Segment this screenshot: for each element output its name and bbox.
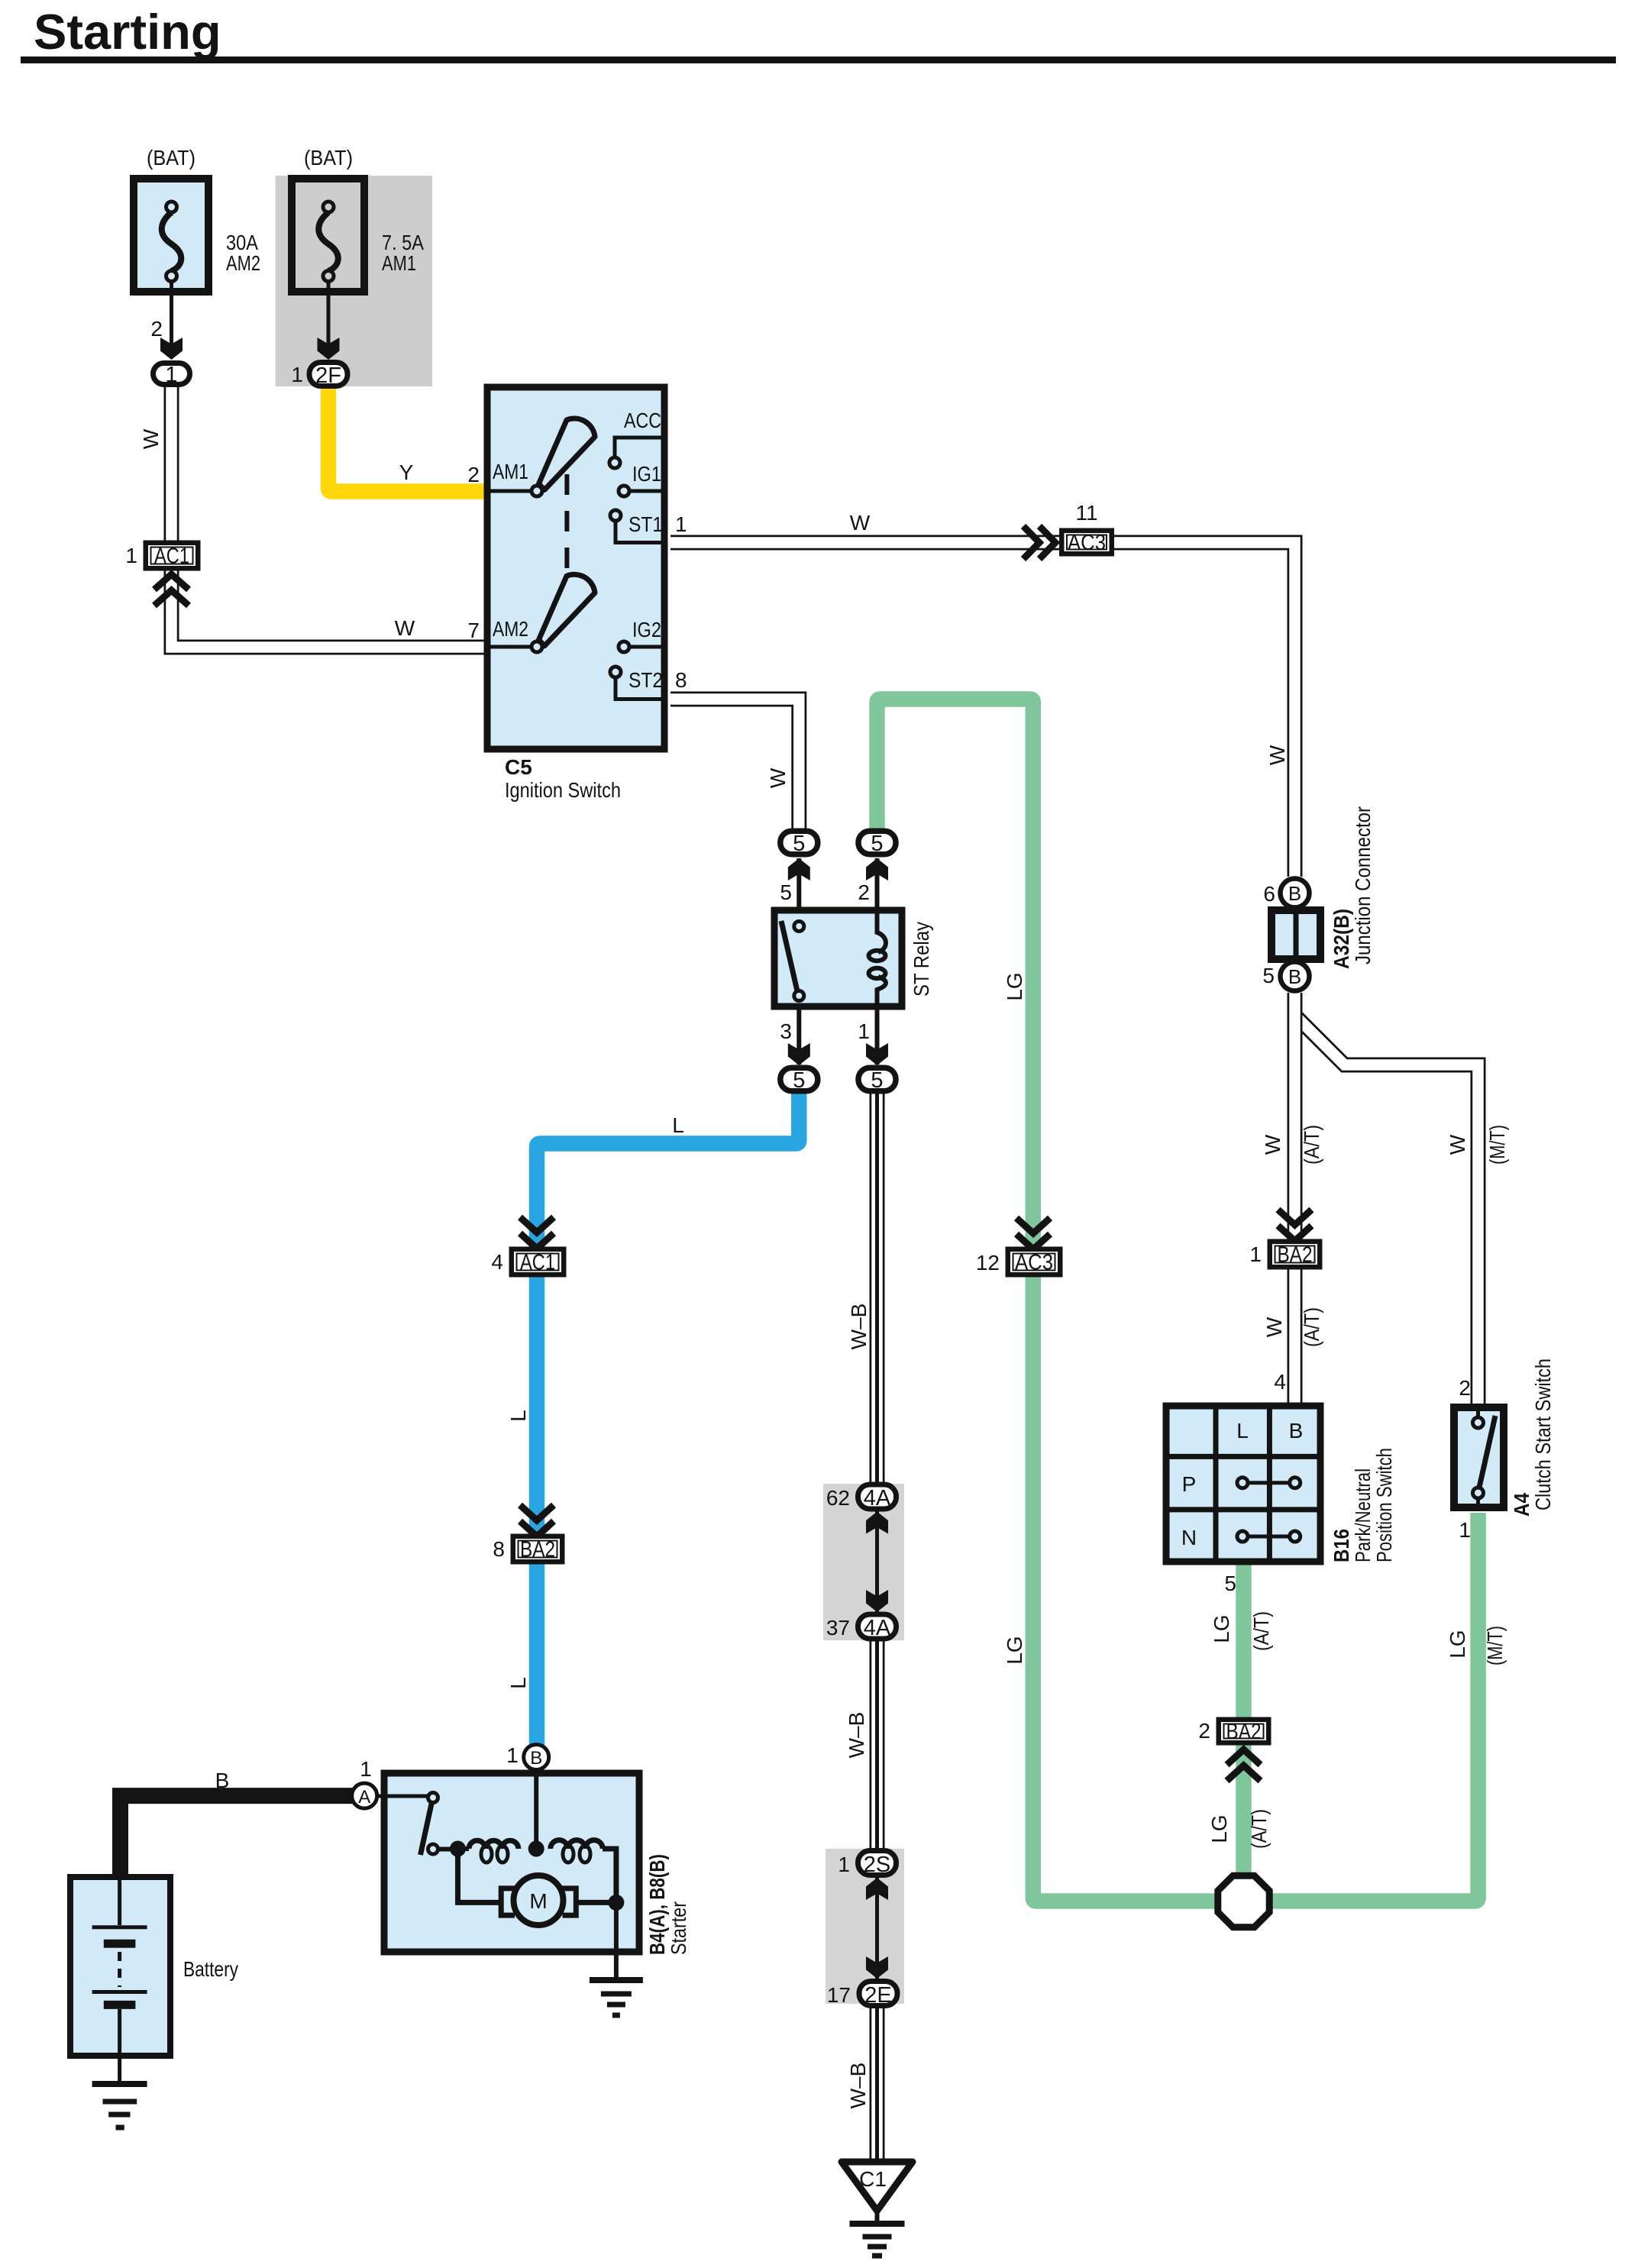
relay pin 1 stub xyxy=(875,1006,880,1065)
svg-text:B: B xyxy=(1288,965,1301,988)
svg-text:BA2: BA2 xyxy=(1226,1720,1262,1744)
wire LG (A/T) green from B16 pin 5 through BA2-2 to octagon splice xyxy=(1236,1565,1252,1901)
svg-text:4A: 4A xyxy=(864,1616,891,1640)
svg-text:BA2: BA2 xyxy=(520,1538,555,1562)
svg-text:6: 6 xyxy=(1263,882,1275,906)
svg-text:L: L xyxy=(672,1113,684,1137)
svg-text:AC3: AC3 xyxy=(1015,1251,1053,1275)
svg-text:IG2: IG2 xyxy=(632,618,661,641)
svg-text:Battery: Battery xyxy=(183,1957,238,1981)
svg-text:IG1: IG1 xyxy=(632,462,661,486)
starter solenoid coils xyxy=(450,1841,466,1857)
wire label LG (M/T) on clutch green wire xyxy=(1446,1626,1507,1665)
svg-text:2: 2 xyxy=(858,880,870,904)
svg-text:5: 5 xyxy=(871,1068,883,1093)
svg-text:P: P xyxy=(1182,1472,1197,1496)
svg-text:W: W xyxy=(1262,1317,1286,1337)
wire label W (A/T) below BA2-1 xyxy=(1262,1307,1323,1347)
svg-text:(A/T): (A/T) xyxy=(1249,1611,1273,1651)
wire W-B black stripe xyxy=(875,1092,879,2160)
svg-text:W–B: W–B xyxy=(847,1304,871,1350)
svg-text:4A: 4A xyxy=(864,1486,891,1510)
starter pin A circle xyxy=(352,1757,377,1808)
chevrons below AC1-1 pointing up xyxy=(154,574,189,606)
svg-text:W: W xyxy=(766,767,790,788)
gray background behind connectors 2S 2E xyxy=(826,1849,904,2004)
AM1 switch wedge xyxy=(539,418,596,489)
svg-text:(A/T): (A/T) xyxy=(1300,1307,1323,1347)
connector oval 2E-17 xyxy=(827,1982,897,2008)
relay oval 5 (bottom right) xyxy=(858,1068,896,1093)
svg-text:W: W xyxy=(139,428,163,449)
wire label W (A/T) above BA2-1 xyxy=(1261,1125,1323,1165)
chevrons above BA2-1 pointing down xyxy=(1278,1210,1312,1241)
wire L blue from ST relay pin 3 oval through AC1-4 and BA2-8 to starter pin B xyxy=(537,1090,799,1749)
wire label LG (A/T) below BA2-2 xyxy=(1207,1809,1271,1849)
svg-text:A4: A4 xyxy=(1510,1493,1533,1517)
svg-text:(A/T): (A/T) xyxy=(1300,1125,1323,1165)
svg-text:3: 3 xyxy=(780,1019,792,1043)
AM2 switch wedge xyxy=(539,574,596,645)
svg-text:(BAT): (BAT) xyxy=(147,146,195,170)
svg-text:2: 2 xyxy=(150,317,163,341)
svg-text:LG: LG xyxy=(1446,1630,1469,1658)
svg-text:N: N xyxy=(1181,1526,1197,1549)
svg-text:5: 5 xyxy=(871,832,883,856)
battery xyxy=(70,1877,238,2084)
park/neutral position switch B16 xyxy=(1166,1370,1396,1595)
svg-text:Y: Y xyxy=(399,460,414,484)
wire Y yellow from fuse AM1 oval 2F to ignition AM1 xyxy=(328,386,484,492)
wire W from ignition ST2 to ST relay pin 5 oval xyxy=(670,699,799,830)
AM1 terminal xyxy=(487,489,531,493)
arrow down into relay oval 1 xyxy=(866,1043,888,1065)
connector AC1-1 xyxy=(125,541,200,571)
svg-text:(M/T): (M/T) xyxy=(1483,1626,1507,1665)
svg-text:ST1: ST1 xyxy=(628,512,663,536)
relay switch contact xyxy=(794,922,804,932)
svg-text:ST2: ST2 xyxy=(628,668,663,692)
fuse 30A AM2 xyxy=(134,146,260,357)
connector oval 2S-1 xyxy=(838,1851,896,1878)
svg-text:5: 5 xyxy=(793,832,805,856)
relay oval 5 (top left) xyxy=(780,831,818,856)
svg-text:1: 1 xyxy=(858,1019,870,1043)
wire W (A/T) from junction connector pin 5 through BA2-1 to B16 pin 4 xyxy=(1288,993,1303,1403)
IG1 terminal xyxy=(630,489,664,493)
ACC terminal xyxy=(615,438,664,457)
arrow down into connector 2E xyxy=(866,1956,888,1979)
svg-text:2: 2 xyxy=(1459,1376,1471,1400)
svg-text:(BAT): (BAT) xyxy=(304,146,353,170)
starter motor xyxy=(458,1849,502,1902)
AM2 terminal xyxy=(487,645,531,649)
relay oval 5 (bottom left) xyxy=(780,1068,818,1093)
svg-text:1: 1 xyxy=(125,544,137,567)
svg-text:C1: C1 xyxy=(859,2167,887,2191)
ST1 terminal xyxy=(610,510,621,521)
N row contact xyxy=(1242,1535,1295,1539)
connector oval 4A-62 xyxy=(826,1485,897,1510)
svg-text:LG: LG xyxy=(1003,972,1026,1000)
svg-text:Park/Neutral: Park/Neutral xyxy=(1351,1468,1375,1562)
svg-text:4: 4 xyxy=(491,1250,503,1274)
svg-text:AC1: AC1 xyxy=(154,544,189,569)
svg-text:Junction Connector: Junction Connector xyxy=(1351,806,1375,964)
svg-text:Position Switch: Position Switch xyxy=(1372,1448,1396,1562)
svg-text:1: 1 xyxy=(360,1757,372,1781)
chevrons above AC1-4 pointing down xyxy=(520,1217,554,1249)
svg-text:62: 62 xyxy=(826,1486,850,1510)
svg-text:5: 5 xyxy=(1224,1572,1236,1595)
octagon splice xyxy=(1218,1875,1269,1927)
svg-text:2F: 2F xyxy=(315,363,341,388)
relay pin 2 stub xyxy=(875,858,880,910)
svg-text:LG: LG xyxy=(1003,1636,1026,1664)
svg-text:LG: LG xyxy=(1210,1614,1233,1643)
connector oval 1 xyxy=(153,363,190,387)
svg-text:5: 5 xyxy=(793,1068,805,1093)
svg-text:1: 1 xyxy=(165,363,177,387)
svg-text:A: A xyxy=(358,1787,370,1808)
svg-text:1: 1 xyxy=(1249,1242,1262,1266)
svg-text:5: 5 xyxy=(780,880,792,904)
svg-text:B: B xyxy=(530,1748,542,1769)
chevrons above BA2-8 pointing down xyxy=(520,1505,554,1536)
svg-text:BA2: BA2 xyxy=(1278,1243,1313,1268)
svg-text:A32(B): A32(B) xyxy=(1330,909,1353,969)
relay oval 5 (top right) xyxy=(858,831,896,856)
svg-text:ST Relay: ST Relay xyxy=(910,922,933,997)
svg-text:1: 1 xyxy=(291,363,303,386)
relay pin 5 stub xyxy=(796,858,801,910)
relay pin 3 stub xyxy=(796,1006,801,1065)
arrow up into connector 2S xyxy=(866,1878,888,1900)
dashed link line xyxy=(564,474,569,571)
svg-text:AM1: AM1 xyxy=(493,460,528,483)
connector BA2-8 xyxy=(493,1534,564,1565)
ground C1 xyxy=(842,2162,913,2256)
svg-text:W: W xyxy=(1446,1134,1469,1155)
svg-text:Starting: Starting xyxy=(34,4,221,60)
svg-text:W: W xyxy=(850,511,871,535)
svg-text:W–B: W–B xyxy=(846,2063,870,2109)
svg-text:L: L xyxy=(506,1677,530,1689)
svg-text:Ignition Switch: Ignition Switch xyxy=(505,778,621,802)
svg-text:B: B xyxy=(1289,1419,1304,1443)
svg-text:B: B xyxy=(1288,882,1301,905)
connector oval 4A-37 xyxy=(826,1614,897,1640)
chevrons before AC3-11 pointing right xyxy=(1023,526,1055,559)
svg-text:5: 5 xyxy=(1262,964,1275,987)
relay coil xyxy=(877,910,886,952)
wire B black from battery to starter pin A xyxy=(121,1796,353,1875)
svg-text:2: 2 xyxy=(467,463,480,486)
connector BA2-2 xyxy=(1198,1717,1271,1746)
connector oval 2F xyxy=(309,363,347,389)
wire W from fuse AM2 oval 1 to connector AC1-1 and ignition switch AM2 xyxy=(172,387,485,648)
P row contact xyxy=(1242,1481,1295,1485)
svg-text:AM1: AM1 xyxy=(382,251,416,275)
svg-text:AC3: AC3 xyxy=(1068,531,1106,555)
connector arrow into oval 2F xyxy=(318,338,340,360)
clutch start switch A4 xyxy=(1454,1359,1555,1542)
connector AC1-4 xyxy=(491,1247,566,1278)
wire label W (M/T) on clutch branch xyxy=(1446,1125,1509,1165)
gray background behind fuse AM1 xyxy=(276,176,433,386)
svg-text:37: 37 xyxy=(826,1616,850,1640)
wire W-B from ST relay pin 1 oval down to ground C1 (outlined segments) xyxy=(870,1092,885,2160)
arrow down into relay oval 3 xyxy=(788,1043,810,1065)
svg-text:8: 8 xyxy=(675,668,687,692)
svg-text:2S: 2S xyxy=(864,1853,890,1877)
wire W (M/T) branch from junction connector to clutch start switch pin 2 xyxy=(1297,1017,1478,1404)
starter B4(A), B8(B) xyxy=(377,1770,690,1980)
svg-text:1: 1 xyxy=(675,512,687,536)
svg-text:2E: 2E xyxy=(864,1983,891,2008)
svg-text:2: 2 xyxy=(1198,1719,1210,1743)
starter switch xyxy=(377,1795,428,1798)
svg-text:C5: C5 xyxy=(505,755,532,779)
ignition switch C5 xyxy=(467,387,687,802)
svg-text:W: W xyxy=(395,616,415,640)
ST2 terminal xyxy=(610,667,621,677)
svg-text:W: W xyxy=(1261,1134,1284,1155)
svg-text:1: 1 xyxy=(506,1743,519,1767)
title Starting xyxy=(21,4,1616,63)
starter pin B circle xyxy=(506,1743,548,1770)
connector arrow into oval 1 xyxy=(160,338,183,360)
svg-text:AM2: AM2 xyxy=(226,251,260,275)
ground below starter xyxy=(590,1980,643,2015)
svg-text:4: 4 xyxy=(1274,1370,1286,1394)
arrow up into relay oval 5 xyxy=(788,858,810,880)
svg-text:1: 1 xyxy=(838,1853,850,1876)
wire LG green from ST relay pin 2 oval through AC3-12, octagon splice to clutch start switch pin 1 xyxy=(877,699,1478,1901)
IG2 terminal xyxy=(630,645,664,649)
svg-text:(M/T): (M/T) xyxy=(1485,1125,1509,1165)
svg-text:W: W xyxy=(1265,745,1289,765)
arrow up into connector 4A-62 xyxy=(866,1512,888,1534)
wire W from ignition ST1 through AC3-11 to junction connector A32(B) pin 6 xyxy=(670,543,1295,877)
svg-text:L: L xyxy=(506,1410,530,1422)
svg-text:B: B xyxy=(215,1769,230,1792)
chevrons below BA2-2 pointing up xyxy=(1227,1749,1261,1781)
svg-text:1: 1 xyxy=(1459,1518,1471,1542)
gray background behind connector 4A xyxy=(823,1484,904,1640)
svg-text:LG: LG xyxy=(1207,1814,1231,1843)
svg-text:11: 11 xyxy=(1075,501,1097,525)
svg-text:M: M xyxy=(529,1889,547,1913)
svg-text:(A/T): (A/T) xyxy=(1247,1809,1271,1849)
chevrons above AC3-12 pointing down xyxy=(1016,1218,1050,1249)
svg-text:ACC: ACC xyxy=(624,409,661,432)
junction connector A32(B) xyxy=(1262,806,1375,991)
svg-text:AC1: AC1 xyxy=(520,1251,555,1275)
ground below battery xyxy=(92,2084,147,2127)
connector BA2-1 xyxy=(1249,1239,1322,1270)
svg-text:Starter: Starter xyxy=(667,1901,690,1955)
arrow up into relay oval 2 xyxy=(866,858,888,880)
ST relay xyxy=(774,858,933,1065)
svg-text:12: 12 xyxy=(976,1251,1000,1275)
wire label LG (A/T) above BA2-2 xyxy=(1210,1611,1273,1651)
fuse 7.5A AM1 xyxy=(291,146,424,386)
arrow down into connector 4A-37 xyxy=(866,1590,888,1612)
svg-text:8: 8 xyxy=(493,1537,505,1561)
svg-text:17: 17 xyxy=(827,1983,851,2007)
connector AC3-11 xyxy=(1059,501,1114,557)
svg-text:Clutch Start Switch: Clutch Start Switch xyxy=(1531,1359,1555,1510)
connector AC3-12 xyxy=(976,1247,1063,1278)
svg-text:7: 7 xyxy=(467,619,480,642)
svg-text:B4(A), B8(B): B4(A), B8(B) xyxy=(645,1854,669,1955)
svg-text:L: L xyxy=(1236,1419,1249,1443)
svg-text:W–B: W–B xyxy=(845,1712,868,1759)
svg-text:AM2: AM2 xyxy=(493,617,528,641)
svg-text:B16: B16 xyxy=(1330,1529,1353,1562)
